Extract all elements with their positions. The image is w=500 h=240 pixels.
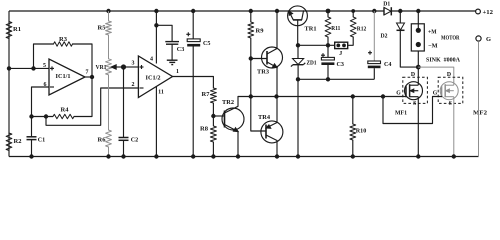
- label IC1/1: [56, 73, 71, 80]
- capacitor C4 positive plate: [368, 61, 381, 64]
- capacitor C5 negative plate: [187, 44, 200, 47]
- svg-text:D: D: [447, 72, 451, 78]
- transistor TR3 circle: [262, 47, 283, 68]
- label R7: [202, 91, 210, 98]
- svg-text:+12: +12: [483, 9, 494, 16]
- wire: branch to C3: [156, 25, 172, 41]
- label IC1/2: [146, 75, 161, 82]
- node: TR4 emitter junction: [274, 94, 278, 98]
- capacitor C4 negative plate: [368, 66, 381, 69]
- label S MF2: [449, 101, 452, 107]
- capacitor C3: [165, 42, 179, 45]
- svg-text:IC1/2: IC1/2: [146, 75, 161, 82]
- diode D1: [384, 7, 391, 15]
- label +M: [428, 29, 437, 36]
- svg-text:IC1/1: IC1/1: [56, 73, 71, 80]
- wire: ZD1 anode to ground rail: [297, 79, 299, 156]
- TR1 base bar: [293, 19, 302, 21]
- label R12: [357, 26, 367, 33]
- label VR1: [96, 64, 107, 71]
- svg-text:11: 11: [158, 90, 164, 96]
- node: R10 ground dot: [351, 154, 355, 158]
- svg-text:R2: R2: [14, 138, 22, 145]
- wire: C4 to return wire: [373, 68, 375, 79]
- node: pin4/C3 branch: [154, 23, 158, 27]
- capacitor C3 positive plate: [321, 57, 334, 60]
- node: gate split junction: [381, 94, 385, 98]
- pin label 6: [44, 82, 47, 88]
- motor connector box: [411, 24, 424, 51]
- pin label 1: [176, 69, 179, 75]
- minus sign IC1/2 pin2: [140, 87, 144, 89]
- wire: VR1 to R6: [108, 75, 110, 130]
- label MF1: [395, 110, 407, 117]
- node: R8 ground dot: [211, 154, 215, 158]
- node: junction R1/R2/pin5: [7, 66, 11, 70]
- plus sign C4: [368, 51, 372, 55]
- svg-text:J: J: [339, 50, 342, 57]
- label ZD1: [307, 60, 317, 67]
- label G MF1: [396, 91, 401, 97]
- wire: wiper to IC1/2 pin 3: [124, 66, 139, 68]
- plus sign C3el: [321, 53, 325, 57]
- resistor R8: [210, 126, 216, 142]
- svg-text:2: 2: [132, 82, 135, 88]
- node: C3el return junction: [326, 77, 330, 81]
- label TR2: [222, 99, 234, 106]
- svg-text:R1: R1: [13, 26, 21, 33]
- label C1: [38, 137, 46, 144]
- wire: R7 to base node: [212, 103, 214, 116]
- label D1: [383, 2, 390, 8]
- mosfet MF1 dashed box: [403, 77, 428, 103]
- wire: rail to C4 (grey): [373, 11, 375, 61]
- svg-text:R6: R6: [98, 137, 106, 144]
- svg-text:SINK #000A: SINK #000A: [426, 57, 460, 64]
- node: R9 rail dot: [249, 9, 253, 13]
- svg-text:R7: R7: [202, 91, 210, 98]
- capacitor C3 negative plate: [321, 62, 334, 65]
- label TR4: [258, 114, 270, 121]
- wire: R3 right leg: [73, 44, 93, 77]
- motor terminal +M: [416, 28, 421, 33]
- TR3 emitter: [267, 62, 277, 68]
- label R9: [256, 28, 264, 35]
- plus sign C5: [186, 32, 190, 36]
- wire: R9 to TR3 base node: [250, 38, 252, 59]
- TR3 base bar: [266, 51, 268, 65]
- TR4 base bar: [265, 125, 267, 139]
- svg-text:R12: R12: [357, 26, 367, 33]
- wire: R5 to VR1: [108, 35, 110, 59]
- TR3 collector: [267, 11, 277, 54]
- wire: pin11 to ground rail: [155, 86, 157, 156]
- label D2: [381, 34, 388, 40]
- wire: left column vertical (R1/R2): [8, 11, 10, 157]
- node: R11 rail dot: [326, 9, 331, 14]
- svg-text:R5: R5: [98, 25, 106, 32]
- wire: rail to R11: [327, 11, 329, 17]
- svg-text:−M: −M: [428, 43, 438, 50]
- wire: return run y79: [298, 78, 374, 80]
- wire: TR4 lower lead to ground: [276, 141, 278, 157]
- resistor R1: [6, 22, 12, 39]
- pin label 11: [158, 90, 164, 96]
- node: TR3 base junction: [249, 56, 253, 60]
- wire: R3 left leg: [34, 44, 54, 68]
- node: motor rail dot: [416, 9, 420, 13]
- wire: IC1/1 pin 6 leg: [32, 87, 50, 117]
- wire: base node to TR2 base: [213, 115, 224, 117]
- label TR3: [257, 69, 269, 76]
- resistor R5: [106, 21, 112, 35]
- svg-text:S: S: [449, 101, 452, 107]
- svg-text:C1: C1: [38, 137, 46, 144]
- TR4 collector upper: [266, 123, 277, 129]
- wire: MF1 source to ground: [417, 100, 419, 157]
- mosfet MF2 dashed box: [438, 77, 463, 103]
- node: ZD1 anode / C4 return junction: [296, 77, 300, 81]
- label -M: [428, 43, 438, 50]
- pin label 4: [150, 57, 153, 63]
- label R10: [356, 128, 367, 135]
- label TR1: [305, 26, 317, 33]
- svg-text:D: D: [411, 72, 415, 78]
- wire: rail to C5: [192, 11, 194, 39]
- node: C4 rail dot: [372, 9, 376, 13]
- label R8: [200, 126, 208, 133]
- node: TR2 emitter ground dot: [236, 154, 240, 158]
- svg-text:R3: R3: [59, 36, 67, 43]
- label R4: [61, 107, 70, 114]
- svg-text:D2: D2: [381, 34, 388, 40]
- wire: rail to motor +M: [417, 11, 419, 30]
- node: MF1 ground dot: [416, 154, 420, 158]
- node: R7/R8/TR2 base junction: [211, 114, 215, 118]
- capacitor C5 positive plate: [187, 39, 200, 42]
- wire: R8 to ground rail: [212, 142, 214, 157]
- resistor R7: [210, 88, 216, 103]
- node: C5 rail dot: [191, 9, 195, 13]
- wire: R4 right leg: [74, 77, 92, 117]
- motor terminal -M: [416, 42, 421, 47]
- node: ZD1 ground dot: [296, 154, 300, 158]
- label R11: [331, 25, 340, 32]
- wire: C3 to ground symbol: [171, 44, 173, 60]
- TR4 emitter lower: [266, 135, 277, 141]
- diode D2: [397, 23, 405, 30]
- node: junction R3 feedback to pin5 wire: [31, 66, 35, 70]
- node: R11/C3 junction: [326, 43, 330, 47]
- svg-text:MF1: MF1: [395, 110, 407, 117]
- node: D2 rail dot: [398, 9, 402, 13]
- transistor TR2 circle: [222, 108, 244, 130]
- svg-text:1: 1: [176, 69, 179, 75]
- wire: rail down to pin4: [155, 11, 157, 64]
- resistor R10: [350, 124, 356, 140]
- wire: R10 to ground: [352, 140, 354, 157]
- node: MF2 ground dot: [452, 154, 456, 158]
- wire: R11 to node: [327, 37, 329, 45]
- capacitor C2: [119, 138, 129, 141]
- label MF2: [473, 110, 487, 117]
- node: R12 rail dot: [351, 9, 355, 13]
- mosfet MF1: [405, 82, 423, 100]
- label C4: [384, 61, 392, 68]
- node: R9 line junction: [249, 94, 253, 98]
- svg-text:R4: R4: [61, 107, 70, 114]
- op-amp IC1/2 body: [138, 56, 172, 98]
- node: pin11 ground dot: [154, 154, 158, 158]
- wire: C3el to return wire: [327, 65, 329, 79]
- wire: C2 bottom lead: [123, 140, 125, 156]
- wire: rail to R12: [352, 11, 354, 17]
- wire: C2 top lead: [123, 67, 125, 137]
- TR1 collector diag: [302, 10, 304, 20]
- label C3: [177, 46, 185, 53]
- label G terminal: [486, 36, 491, 43]
- resistor R4: [53, 114, 74, 118]
- node: junction tap to IC1/2 pin2: [44, 114, 48, 118]
- TR2 base bar: [224, 111, 226, 128]
- pin label 2: [132, 82, 135, 88]
- wire: to IC1/1 pin 5: [9, 67, 49, 69]
- wire: node to C3el: [327, 45, 329, 57]
- wire: TR3 base node down to wire: [250, 59, 252, 97]
- node: R10 junction: [351, 94, 355, 98]
- label SINK: [426, 57, 460, 64]
- svg-text:3: 3: [132, 61, 135, 67]
- wire: IC1/2 output to R7: [173, 77, 214, 89]
- resistor R11: [325, 17, 331, 37]
- node: TR3 collector rail dot: [275, 9, 279, 13]
- wire: J to R12: [348, 37, 354, 45]
- op-amp IC1/1 body: [49, 59, 85, 95]
- TR2 collector: [225, 97, 239, 114]
- svg-text:R9: R9: [256, 28, 264, 35]
- wire: -M down to drain node: [417, 51, 419, 67]
- wire: D2 anode down: [400, 30, 418, 67]
- wire: C1 top lead: [31, 117, 33, 137]
- label R1: [13, 26, 21, 33]
- node: R6 bottom: [106, 154, 110, 158]
- label R5: [98, 25, 106, 32]
- svg-text:7: 7: [86, 70, 89, 76]
- svg-text:+M: +M: [428, 29, 437, 36]
- wire: gate node to MF2 gate (staircase): [383, 97, 442, 124]
- potentiometer VR1 body: [106, 59, 112, 75]
- node: C5 ground dot: [191, 154, 195, 158]
- svg-text:TR3: TR3: [257, 69, 269, 76]
- node: pin4 rail dot: [154, 9, 158, 13]
- pin label 7: [86, 70, 89, 76]
- pin label 5: [43, 63, 46, 69]
- svg-text:MF2: MF2: [473, 110, 487, 117]
- capacitor C1: [27, 137, 37, 140]
- node: drain node junction: [416, 65, 421, 70]
- node: wiper/C2/pin3 junction: [121, 64, 126, 69]
- svg-text:TR1: TR1: [305, 26, 317, 33]
- wire: pin6 node to IC1/2 pin 2: [46, 88, 138, 125]
- svg-text:C3: C3: [337, 61, 345, 68]
- mosfet MF2: [440, 82, 458, 100]
- svg-text:C4: C4: [384, 61, 392, 68]
- svg-text:C3: C3: [177, 46, 185, 53]
- terminal +12: [476, 9, 481, 14]
- svg-text:5: 5: [43, 63, 46, 69]
- label D MF2: [447, 72, 451, 78]
- wire: node to R10: [352, 97, 354, 125]
- pin label 3: [132, 61, 135, 67]
- wire: rail to D2: [399, 11, 401, 23]
- resistor R6: [106, 130, 112, 147]
- node: IC1/1 output junction: [90, 75, 94, 79]
- svg-text:TR4: TR4: [258, 114, 270, 121]
- svg-text:S: S: [413, 101, 416, 107]
- wire: R4 left leg: [32, 116, 54, 118]
- TR2 emitter: [225, 125, 239, 132]
- plus sign IC1/1 pin5: [50, 66, 54, 70]
- connector J pins: [336, 44, 346, 48]
- wire: gate node to MF1 gate: [383, 96, 406, 98]
- wire: base node to TR3 base: [251, 58, 267, 60]
- label +12: [483, 9, 494, 16]
- svg-text:C5: C5: [203, 40, 211, 47]
- wire: TR2 emitter to ground: [237, 132, 239, 157]
- svg-text:G: G: [433, 91, 438, 97]
- label C2: [131, 137, 139, 144]
- wire: TR4 upper lead to node wire: [276, 97, 278, 123]
- plus sign IC1/2 pin3: [140, 65, 144, 69]
- minus sign IC1/1 pin6: [50, 86, 54, 88]
- svg-text:4: 4: [150, 57, 153, 63]
- node: TR1/ZD1 junction: [296, 43, 300, 47]
- svg-text:R11: R11: [331, 25, 340, 32]
- ground symbol: [167, 60, 178, 64]
- wire: drain node to MF1 drain: [417, 67, 419, 81]
- wire: MF2 source to ground (grey): [453, 100, 455, 157]
- svg-text:ZD1: ZD1: [307, 60, 317, 67]
- wire: bottom ground rail: [9, 156, 479, 158]
- wire: node run y45: [298, 44, 335, 46]
- wire: IC1/1 output: [85, 76, 92, 78]
- wiper arrow VR1: [111, 65, 123, 69]
- svg-text:MOTOR: MOTOR: [441, 35, 460, 42]
- svg-text:D1: D1: [383, 2, 390, 8]
- node: R5 top on rail: [106, 9, 110, 13]
- wire: base node to R8: [212, 116, 214, 126]
- label C5: [203, 40, 211, 47]
- label R2: [14, 138, 22, 145]
- terminal G: [476, 36, 481, 41]
- wire: TR3 emitter down to node wire: [276, 68, 278, 97]
- wire: TR2 collector node run: [238, 96, 383, 98]
- svg-text:G: G: [486, 36, 491, 43]
- svg-text:TR2: TR2: [222, 99, 234, 106]
- wire: rail to R5: [108, 11, 110, 21]
- TR1 base stem down: [297, 20, 299, 45]
- resistor R2: [6, 133, 12, 151]
- node: C2 to ground rail: [121, 154, 125, 158]
- label C3el: [337, 61, 345, 68]
- wire: R6 to ground rail: [108, 147, 110, 157]
- resistor R9: [248, 22, 254, 38]
- wire: TR3 base node down then to TR4 base: [251, 97, 266, 132]
- resistor R12: [350, 17, 356, 37]
- transistor TR4 circle: [261, 121, 283, 143]
- wire: G terminal to ground rail: [478, 41, 480, 156]
- label G MF2: [433, 91, 438, 97]
- node: TR4 ground dot: [275, 154, 279, 158]
- label D MF1: [411, 72, 415, 78]
- node: junction pin6/R4/C1: [29, 114, 33, 118]
- resistor R3: [54, 42, 73, 46]
- wire: top +12 rail (left of D1): [9, 10, 384, 12]
- TR1 emitter diag: [289, 11, 293, 20]
- wire: rail to R9: [250, 11, 252, 22]
- connector J box: [335, 42, 348, 48]
- label R6: [98, 137, 106, 144]
- label MOTOR: [441, 35, 460, 42]
- node: C1 to ground rail: [29, 154, 33, 158]
- label R3: [59, 36, 67, 43]
- transistor TR1 circle: [288, 6, 308, 26]
- wire: top +12 rail (right of D1): [392, 10, 477, 12]
- label S MF1: [413, 101, 416, 107]
- wire: drain node to MF2 drain (grey): [418, 67, 454, 81]
- label J: [339, 50, 342, 57]
- svg-text:R10: R10: [356, 128, 367, 135]
- svg-text:G: G: [396, 91, 401, 97]
- svg-text:C2: C2: [131, 137, 139, 144]
- wire: C5 down to ground rail: [192, 47, 194, 157]
- svg-text:R8: R8: [200, 126, 208, 133]
- zener diode ZD1: [291, 45, 305, 79]
- wire: C1 bottom lead: [31, 140, 33, 157]
- svg-text:VR1: VR1: [96, 64, 107, 71]
